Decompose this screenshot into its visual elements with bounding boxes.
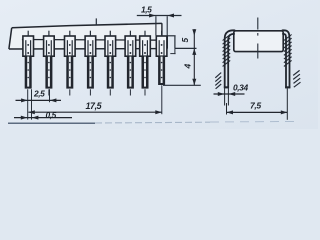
centre tick above body bbox=[95, 18, 97, 25]
left pin bottom cap bbox=[224, 86, 229, 88]
right pin bottom cap bbox=[285, 86, 290, 88]
arrow at bottom of 4 bbox=[192, 79, 196, 86]
left edge (slanted) bbox=[9, 28, 12, 49]
svg-text:17,5: 17,5 bbox=[86, 101, 103, 111]
dim 7,5 bbox=[227, 88, 288, 119]
small bracket mark bbox=[170, 53, 175, 55]
right pin (side view) bbox=[282, 30, 290, 88]
pin 2 (front view) bbox=[44, 31, 55, 96]
pin 8 (front view) bbox=[156, 31, 167, 85]
svg-text:2,5: 2,5 bbox=[33, 89, 45, 99]
step vertical bbox=[174, 36, 176, 49]
svg-text:4: 4 bbox=[183, 64, 193, 70]
ext at body bottom level bbox=[175, 47, 197, 49]
pin 7 (front view) bbox=[140, 31, 151, 96]
lead 8 centre extension bbox=[161, 85, 163, 114]
svg-text:0,34: 0,34 bbox=[233, 83, 248, 93]
bottom edge bbox=[9, 48, 168, 50]
top edge (slanted) bbox=[12, 23, 162, 27]
dim 0,34 bbox=[214, 88, 245, 105]
dim 17,5 bbox=[28, 110, 162, 114]
stray hatch at right pin bottom bbox=[293, 70, 300, 87]
left pin (side view) bbox=[225, 30, 236, 88]
svg-text:5: 5 bbox=[180, 38, 190, 43]
dim 0,5 bbox=[14, 116, 72, 120]
pin 4 (front view) bbox=[85, 31, 96, 96]
hatch on right pin bbox=[284, 35, 292, 67]
dim 2,5 bbox=[16, 98, 62, 102]
dim 1,5 at top bbox=[137, 14, 182, 36]
arrow at 48.4 bbox=[192, 48, 196, 55]
dim 4 bottom reference line bbox=[163, 84, 201, 86]
svg-text:7,5: 7,5 bbox=[250, 100, 261, 110]
pin 1 (front view) bbox=[23, 31, 34, 89]
dimension 5 / 4 shared vertical line bbox=[192, 29, 196, 85]
top-right corner down bbox=[161, 23, 163, 36]
body bar (front view) bbox=[9, 18, 168, 49]
lead 2 centre extension bbox=[49, 89, 51, 102]
pin 5 (front view) bbox=[105, 31, 116, 96]
svg-text:0,5: 0,5 bbox=[46, 110, 57, 120]
right-end step extension bbox=[163, 36, 201, 86]
pin 3 (front view) bbox=[65, 31, 76, 96]
hatch on left pin bbox=[223, 35, 231, 67]
body fill bbox=[9, 23, 167, 49]
right edge bbox=[166, 36, 168, 49]
svg-text:1,5: 1,5 bbox=[141, 5, 152, 15]
centre line dash-dot bbox=[257, 18, 259, 59]
pin 6 (front view) bbox=[125, 31, 136, 96]
lead 1 edge extension lines bbox=[27, 89, 29, 119]
ext from pin8 top bbox=[167, 35, 176, 37]
shoulder line bbox=[22, 39, 167, 42]
arrow at top of 5 bbox=[192, 29, 196, 36]
body (side view) bbox=[234, 31, 283, 52]
stray hatch at left pin bottom bbox=[215, 73, 221, 89]
bottom rule line (faint, broken) bbox=[8, 122, 95, 124]
